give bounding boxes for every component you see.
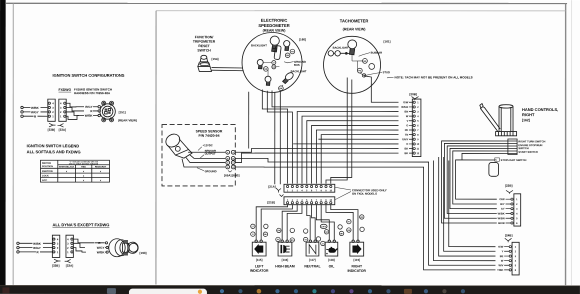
svg-text:W: W xyxy=(277,239,279,241)
svg-text:BK/R: BK/R xyxy=(498,221,504,225)
wire: faint right margin line xyxy=(570,0,572,285)
svg-text:RIGHT: RIGHT xyxy=(522,112,535,117)
node: left lead circles DYNA xyxy=(17,242,52,253)
svg-text:C: C xyxy=(495,159,497,162)
wire: W/GN speedo feed xyxy=(272,90,399,106)
wire: speedo bulb drops xyxy=(274,92,276,184)
wire: W/BK lead dyna xyxy=(19,242,32,244)
lamp 118 oil xyxy=(325,240,338,256)
svg-text:ACC: ACC xyxy=(42,179,47,182)
connector 22B body xyxy=(514,194,521,226)
label: [65A] [65B] xyxy=(228,170,232,172)
lamp: tach backlight bulb xyxy=(348,40,357,55)
wire: R lead xyxy=(23,115,33,117)
node: switch terminal circles xyxy=(93,106,100,117)
lamp 116 high beam xyxy=(278,240,292,256)
wire: 21A pin5 V xyxy=(307,121,399,184)
wire: BK row to sensor xyxy=(235,148,398,152)
taskbar: app icon left xyxy=(107,288,116,294)
connector 22B fork xyxy=(506,190,513,193)
svg-text:[119]: [119] xyxy=(353,258,360,262)
wire: busbar leader xyxy=(359,53,370,57)
svg-text:GROUND: GROUND xyxy=(205,169,217,173)
label: 20B pin numbers xyxy=(417,101,420,155)
svg-text:RESET: RESET xyxy=(198,44,210,48)
wire: 22B pin stubs xyxy=(506,199,511,223)
svg-text:[162]: [162] xyxy=(522,118,530,122)
svg-text:W/GN: W/GN xyxy=(401,105,408,109)
connector 24B body xyxy=(512,242,519,275)
wire: GN/Y row to sensor xyxy=(318,138,398,140)
svg-text:[161]: [161] xyxy=(384,40,391,44)
svg-text:[21B]: [21B] xyxy=(267,200,275,204)
speedo busbar housing xyxy=(274,46,281,60)
wire: 21A pin7 PK xyxy=(316,130,398,184)
wire: 33A to switch weave xyxy=(66,103,84,119)
svg-text:STOPLIGHT SWITCH: STOPLIGHT SWITCH xyxy=(501,158,527,162)
svg-text:O/W: O/W xyxy=(498,245,504,249)
svg-text:BACKLIGHT: BACKLIGHT xyxy=(291,69,307,73)
svg-text:SWITCH: SWITCH xyxy=(197,48,211,52)
ignition switch 151 rear view xyxy=(100,101,115,122)
lamp: speedo main backlight bulb xyxy=(270,36,279,52)
svg-text:BK: BK xyxy=(405,147,409,151)
svg-text:SWITCH: SWITCH xyxy=(518,146,528,150)
svg-text:BE: BE xyxy=(500,254,504,258)
wire: tach internals xyxy=(352,55,363,75)
svg-text:W/BK: W/BK xyxy=(97,250,106,254)
label: 22B wire names xyxy=(498,197,505,225)
svg-text:[20B]: [20B] xyxy=(409,92,417,96)
svg-text:ALL SOFTAILS AND FXDWG: ALL SOFTAILS AND FXDWG xyxy=(27,149,81,154)
wire: 24B bundle rows xyxy=(235,157,495,270)
legend table xyxy=(40,160,109,182)
svg-text:W/BK: W/BK xyxy=(85,114,94,118)
svg-text:(REAR VIEW): (REAR VIEW) xyxy=(343,27,367,31)
svg-text:[33A]: [33A] xyxy=(59,128,67,132)
node: terminal TN xyxy=(285,49,294,57)
svg-text:R/Y: R/Y xyxy=(500,202,505,206)
lamp 119 right indicator xyxy=(350,240,364,256)
wire: W/GY lead xyxy=(23,111,30,113)
node: terminal BK left xyxy=(264,67,269,72)
ignition switch 193 side view xyxy=(109,239,138,257)
svg-text:WHITE/BLACK: WHITE/BLACK xyxy=(59,166,75,169)
svg-text:ON FXDL MODELS: ON FXDL MODELS xyxy=(352,192,377,196)
connector 21B fork xyxy=(279,194,283,196)
svg-text:LEFT: LEFT xyxy=(255,264,264,268)
connector 33B dyna xyxy=(52,235,59,257)
svg-text:HARNESS P/N 70256-92A: HARNESS P/N 70256-92A xyxy=(74,91,111,95)
wire: page right border xyxy=(565,3,567,285)
svg-text:RED: RED xyxy=(81,167,86,169)
speed sensor body xyxy=(163,131,192,158)
svg-text:W/GY: W/GY xyxy=(97,246,105,250)
svg-text:RED/GRAY: RED/GRAY xyxy=(95,166,107,169)
node: fan terminal circles with codes xyxy=(251,215,365,246)
wire: hand controls to 22B bundle xyxy=(442,141,507,223)
svg-text:OIL: OIL xyxy=(329,264,335,268)
svg-text:[33B]: [33B] xyxy=(52,264,60,268)
svg-text:Y: Y xyxy=(502,249,504,253)
wire: stud leader xyxy=(366,72,382,75)
svg-text:[33B]: [33B] xyxy=(48,128,56,132)
wire: W/BK lead xyxy=(23,107,30,109)
wire: center divider xyxy=(155,11,157,285)
wire: 21A pin6 O xyxy=(312,125,399,183)
svg-text:TRIPOMETER: TRIPOMETER xyxy=(193,40,216,44)
hand controls grip drawing xyxy=(480,104,517,136)
svg-text:NOTE: TACH MAY NOT BE PRESENT: NOTE: TACH MAY NOT BE PRESENT ON ALL MOD… xyxy=(395,75,473,79)
svg-text:SWITCH: SWITCH xyxy=(42,163,51,165)
svg-text:SPEEDOMETER: SPEEDOMETER xyxy=(258,23,289,28)
wire: 21A pin4 W xyxy=(302,116,399,184)
svg-text:START SWITCH: START SWITCH xyxy=(518,150,538,154)
svg-text:W/BK: W/BK xyxy=(31,106,40,110)
svg-text:IGNITION: IGNITION xyxy=(42,170,53,173)
wire: O/W tach feed xyxy=(364,76,399,102)
lamp 115 left indicator xyxy=(252,240,266,256)
wire: 21A pin1 to speedo xyxy=(262,89,287,183)
svg-text:[65A] [65B]: [65A] [65B] xyxy=(224,173,239,177)
svg-text:[33A]: [33A] xyxy=(66,264,74,268)
svg-text:BUSBAR: BUSBAR xyxy=(371,51,383,55)
tachometer U161 body xyxy=(324,36,381,93)
wire: 33A dyna to switch xyxy=(73,239,104,252)
connector 33B xyxy=(48,99,55,121)
wire: 21A pin10 from tach xyxy=(331,80,352,184)
label: 24B wire names xyxy=(497,245,504,272)
svg-text:[24B]: [24B] xyxy=(505,233,513,237)
svg-text:[22B]: [22B] xyxy=(505,184,513,188)
svg-text:IGNITION SWITCH LEGEND: IGNITION SWITCH LEGEND xyxy=(27,143,80,148)
taskbar: icon dots xyxy=(220,289,224,293)
wire: page left border xyxy=(12,3,14,285)
node: dyna switch terminals xyxy=(105,242,108,254)
wire: 21A pin9 from tach xyxy=(326,78,347,184)
svg-text:TACHOMETER: TACHOMETER xyxy=(340,18,369,23)
connector 33A dyna xyxy=(66,235,73,257)
svg-text:W/BK: W/BK xyxy=(498,211,505,215)
svg-text:(REAR VIEW): (REAR VIEW) xyxy=(263,29,287,33)
svg-text:[160]: [160] xyxy=(299,38,306,42)
node: tach center terminals xyxy=(357,59,374,74)
node: stud terminal xyxy=(362,74,365,77)
wire: inner top border xyxy=(156,10,566,12)
label: stoplight switch xyxy=(495,158,500,161)
wire: page top border xyxy=(6,2,567,4)
svg-text:RIGHT TURN SWITCH: RIGHT TURN SWITCH xyxy=(518,139,545,143)
node: terminal BK bottom xyxy=(279,86,284,91)
wire: 24B pin stubs xyxy=(504,247,509,270)
svg-text:STUD: STUD xyxy=(383,70,390,74)
wire: speedo ground drop xyxy=(248,92,250,149)
wire: ground bus leader xyxy=(284,62,294,63)
connector arrows under dyna xyxy=(54,259,71,263)
svg-text:BN: BN xyxy=(405,110,409,114)
svg-text:INDICATOR: INDICATOR xyxy=(347,269,366,273)
svg-text:INDICATOR: INDICATOR xyxy=(250,269,269,273)
stoplight switch xyxy=(489,162,499,176)
svg-text:OUTPUT: OUTPUT xyxy=(205,152,216,156)
hand controls switch block xyxy=(506,139,517,155)
svg-text:[193]: [193] xyxy=(140,251,147,255)
wire: note leader xyxy=(387,76,394,79)
wire: 21A pin8 TN xyxy=(321,135,398,184)
label: 20B wire names xyxy=(401,100,409,155)
speed sensor dashed enclosure xyxy=(162,125,235,186)
svg-text:BACKLIGHT: BACKLIGHT xyxy=(333,46,349,50)
svg-text:PK: PK xyxy=(405,128,409,132)
lamp 117 neutral xyxy=(306,240,319,256)
connector 21A body xyxy=(284,184,335,192)
lamp: speedo bulb lower right xyxy=(283,71,295,83)
wire: stoplight to 22B xyxy=(456,160,497,199)
svg-text:SPEED SENSOR: SPEED SENSOR xyxy=(196,129,223,133)
connector 21A fork xyxy=(276,188,281,193)
taskbar xyxy=(0,285,580,294)
connector 20B fork xyxy=(412,97,419,101)
svg-text:(REAR VIEW): (REAR VIEW) xyxy=(118,118,137,122)
svg-text:BACKLIGHT: BACKLIGHT xyxy=(251,43,267,47)
wire: fxdl leaders xyxy=(335,187,351,190)
svg-text:BUS: BUS xyxy=(294,63,300,67)
svg-text:GN/Y: GN/Y xyxy=(321,226,326,228)
connector 33A xyxy=(59,99,66,121)
svg-text:[151]: [151] xyxy=(119,110,126,114)
wire: O row to sensor xyxy=(293,143,398,145)
lamp: speedo small bulb upper right xyxy=(284,40,290,50)
svg-text:[118]: [118] xyxy=(328,258,335,262)
wire: 21A pin3 BN xyxy=(297,112,398,184)
connector arrows under 33B/33A xyxy=(49,123,64,127)
svg-text:wire in switch position indica: wire in switch position indicated xyxy=(69,162,99,165)
svg-text:BK: BK xyxy=(405,151,409,155)
node: sensor connector 65A/65B terminals xyxy=(226,150,235,169)
svg-text:W/BN: W/BN xyxy=(498,216,505,220)
svg-text:O/W: O/W xyxy=(403,100,409,104)
wire: R lead dyna xyxy=(19,251,36,253)
wire: reset switch to speedometer xyxy=(212,68,244,71)
wire: W/GY lead dyna xyxy=(19,247,32,249)
svg-text:[21A]: [21A] xyxy=(268,185,276,189)
svg-text:V: V xyxy=(407,119,409,123)
connector 20B body xyxy=(412,99,421,157)
svg-text:HIGH BEAM: HIGH BEAM xyxy=(275,264,295,268)
svg-text:P/N 74420-94: P/N 74420-94 xyxy=(199,134,220,138)
node: tach left bulbs pair xyxy=(328,51,349,56)
lamp: speedo bulb bottom xyxy=(265,76,271,85)
svg-text:O: O xyxy=(406,142,408,146)
label: 21A pin numbers xyxy=(287,189,333,192)
wire: 21B fan to lamps xyxy=(256,205,358,241)
svg-text:GY: GY xyxy=(501,207,505,211)
svg-text:[117]: [117] xyxy=(309,258,316,262)
svg-text:[116]: [116] xyxy=(282,258,289,262)
svg-text:ALL DYNA'S EXCEPT FXDWG: ALL DYNA'S EXCEPT FXDWG xyxy=(53,222,110,227)
wire: BK row2 to sensor xyxy=(235,153,398,163)
svg-text:NEUTRAL: NEUTRAL xyxy=(304,264,320,268)
connector 24B fork xyxy=(505,238,512,242)
wire: sensor leads xyxy=(182,152,225,167)
svg-text:[154]: [154] xyxy=(212,57,219,61)
svg-text:O/W: O/W xyxy=(499,197,505,201)
svg-text:FXDWG: FXDWG xyxy=(59,88,72,92)
svg-text:GN/Y: GN/Y xyxy=(402,137,409,141)
left black screen bar xyxy=(0,0,6,286)
node: center small terminals xyxy=(272,61,276,69)
node: left lead circles FXDWG xyxy=(21,106,48,117)
taskbar: white search pill xyxy=(129,289,207,294)
svg-text:LOCK: LOCK xyxy=(42,175,49,178)
wire: speedo internal links xyxy=(263,62,283,86)
wire: 20B pin stubs xyxy=(409,102,413,153)
svg-text:IGNITION SWITCH CONFIGURATIONS: IGNITION SWITCH CONFIGURATIONS xyxy=(53,73,125,78)
svg-text:W/V: W/V xyxy=(498,263,503,267)
svg-text:O: O xyxy=(406,123,408,127)
label: 21B pin numbers xyxy=(287,199,333,202)
svg-text:+12VDC: +12VDC xyxy=(202,143,212,147)
connector 21B body xyxy=(284,197,335,205)
svg-text:[115]: [115] xyxy=(256,258,263,262)
svg-text:POSITION: POSITION xyxy=(42,166,53,168)
svg-text:TN: TN xyxy=(405,133,409,137)
svg-text:RIGHT: RIGHT xyxy=(351,264,362,268)
reset switch 154 drawing xyxy=(198,55,212,71)
speedometer U160 body xyxy=(242,32,302,92)
wire: 21A pin2 to speedo xyxy=(267,91,292,184)
lamp: speedo bulb left xyxy=(257,59,263,68)
svg-text:Y/BK: Y/BK xyxy=(497,268,503,272)
